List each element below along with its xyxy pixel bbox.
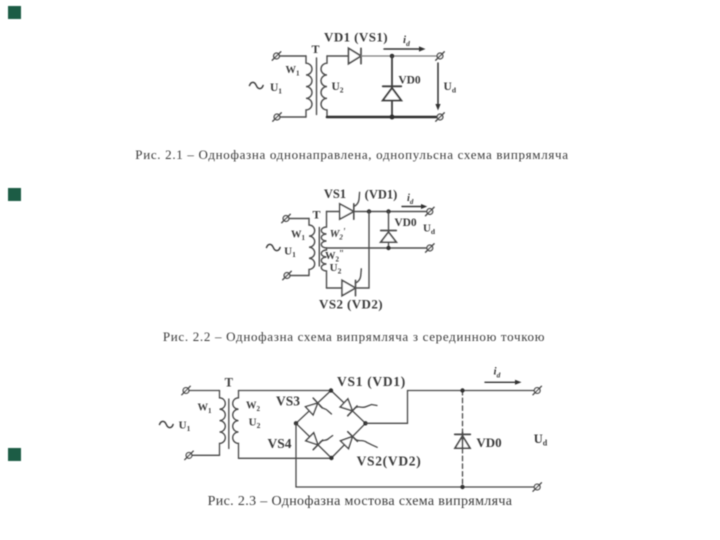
arrow current id C2 — [402, 204, 427, 209]
svg-text:id: id — [407, 193, 414, 206]
gate VS1 C2 — [354, 192, 360, 206]
svg-text:U1: U1 — [284, 246, 296, 260]
transformer T secondary winding U2 — [321, 56, 327, 117]
transformer secondary winding W2' — [321, 212, 326, 249]
wire left node down to output rail C3 — [296, 423, 534, 487]
junction bridge right node C3 — [363, 421, 367, 425]
wire secondary bottom to bridge C3 — [239, 457, 332, 459]
svg-text:VS1: VS1 — [324, 187, 346, 201]
bridge arm left-top C3 — [296, 391, 331, 424]
junction bridge bottom node C3 — [329, 456, 333, 460]
AC source symbol C1 — [250, 82, 264, 88]
svg-text:T: T — [312, 208, 320, 222]
transformer primary winding W1 C3 — [220, 391, 226, 456]
svg-text:VD0: VD0 — [398, 75, 421, 87]
junction VD0 bottom C3 — [460, 485, 464, 489]
svg-text:VD1 (VS1): VD1 (VS1) — [324, 30, 388, 45]
junction VD0 bottom C2 — [386, 246, 390, 250]
thyristor VS2 (VD2) — [342, 280, 356, 295]
transformer core C1 — [316, 58, 318, 115]
junction VS2 branch / top rail C2 — [367, 209, 371, 213]
wire right node to top output rail C3 — [366, 391, 535, 424]
wire secondary top to bridge C3 — [239, 390, 332, 392]
thyristor VS4 — [306, 433, 323, 450]
slide bullet square 1 — [8, 6, 21, 19]
svg-text:U1: U1 — [179, 420, 191, 434]
terminal input bottom-left C2 — [283, 271, 292, 280]
wire primary top C2 — [289, 218, 309, 220]
wire secondary top to diode C1 — [327, 55, 349, 57]
svg-text:W2: W2 — [246, 401, 261, 414]
thyristor VS2 bridge — [341, 432, 358, 449]
freewheeling diode VD0 C2 — [381, 231, 397, 243]
junction bottom rail / VD0 C1 — [390, 115, 395, 120]
freewheeling diode VD0 C1 — [383, 86, 401, 100]
junction bridge left node C3 — [294, 421, 298, 425]
bridge arm top-right C3 — [331, 391, 366, 424]
svg-text:VD0: VD0 — [476, 435, 501, 450]
wire secondary bottom to VS2 — [327, 287, 343, 289]
svg-text:T: T — [311, 42, 319, 56]
svg-text:id: id — [494, 366, 501, 380]
junction bridge top node C3 — [329, 388, 333, 392]
svg-text:Ud: Ud — [444, 81, 457, 95]
freewheeling diode VD0 C3 — [455, 433, 471, 449]
wire middle rail (center tap) C2 — [327, 247, 428, 249]
transformer core C3 — [228, 399, 230, 449]
junction VD0 top C3 — [460, 388, 464, 392]
wire VD0 branch C2 — [388, 212, 390, 249]
terminal input top-left C1 — [272, 52, 281, 61]
transformer core C2 — [318, 228, 320, 267]
wire primary top C3 — [189, 390, 220, 392]
AC source symbol C3 — [160, 421, 174, 427]
svg-text:Ud: Ud — [534, 432, 548, 448]
svg-text:id: id — [403, 34, 410, 48]
gate VS1 bridge — [355, 405, 377, 409]
wire primary bottom C1 — [280, 116, 306, 118]
svg-text:Рис. 2.1 – Однофазна однонапра: Рис. 2.1 – Однофазна однонаправлена, одн… — [135, 147, 568, 162]
wire top rail C2 — [354, 211, 427, 213]
svg-text:Рис. 2.2 – Однофазна схема вип: Рис. 2.2 – Однофазна схема випрямляча з … — [163, 329, 545, 344]
svg-text:VS1 (VD1): VS1 (VD1) — [337, 374, 406, 389]
svg-text:U2: U2 — [249, 417, 261, 431]
transformer secondary winding W2 C3 — [233, 391, 239, 459]
svg-text:U2: U2 — [331, 81, 343, 95]
svg-text:Ud: Ud — [423, 223, 436, 237]
wire VD0 dashed bottom C3 — [462, 449, 464, 488]
terminal output top-right C3 — [533, 386, 542, 395]
svg-text:VS3: VS3 — [276, 394, 300, 409]
svg-text:Рис. 2.3 – Однофазна мостова с: Рис. 2.3 – Однофазна мостова схема випря… — [208, 494, 513, 509]
gate VS3 — [320, 406, 332, 414]
transformer secondary winding W2'' — [321, 248, 326, 288]
transformer primary winding W1 C2 — [309, 219, 315, 276]
svg-text:(VD1): (VD1) — [365, 188, 398, 202]
junction top rail / VD0 C1 — [390, 54, 395, 59]
slide bullet square 3 — [8, 448, 21, 461]
svg-text:VS4: VS4 — [267, 436, 291, 451]
wire secondary top to VS1 — [327, 211, 340, 213]
terminal input top-left C2 — [282, 214, 291, 223]
svg-text:VS2 (VD2): VS2 (VD2) — [319, 297, 383, 312]
terminal output bottom-right C3 — [533, 483, 542, 492]
gate VS4 — [320, 436, 333, 443]
transformer T primary winding W1 — [306, 56, 312, 117]
terminal output top-right C2 — [426, 207, 435, 216]
arrow voltage Ud C1 — [435, 63, 440, 111]
thyristor VS1 bridge — [340, 399, 357, 416]
bridge arm bottom-right C3 — [331, 423, 365, 458]
gate VS2 bridge — [355, 439, 377, 447]
terminal input bottom-left C1 — [273, 113, 282, 122]
terminal input top-left C3 — [182, 386, 191, 395]
svg-text:W1: W1 — [286, 65, 301, 78]
wire top rail C1 — [361, 55, 437, 57]
svg-text:U2: U2 — [330, 262, 342, 276]
junction VD0 top C2 — [386, 209, 390, 213]
diode VD1 (VS1) — [349, 48, 362, 63]
AC source symbol C2 — [267, 244, 281, 250]
svg-text:VD0: VD0 — [394, 217, 417, 229]
wire bottom rail C1 — [327, 116, 437, 119]
gate VS2 C2 — [356, 269, 362, 283]
terminal output bottom-right C1 — [436, 113, 445, 122]
terminal output bottom-right C2 — [426, 244, 435, 253]
svg-text:W1: W1 — [291, 230, 306, 243]
slide bullet square 2 — [8, 188, 21, 201]
thyristor VS3 — [306, 398, 323, 415]
wire primary top C1 — [279, 55, 306, 57]
wire VS2 up to top rail C2 — [356, 212, 370, 289]
svg-text:VS2(VD2): VS2(VD2) — [357, 454, 422, 469]
wire VD0 dashed top C3 — [462, 391, 464, 433]
bridge arm left-bottom C3 — [296, 423, 331, 458]
wire primary bottom C3 — [192, 454, 220, 456]
svg-text:U1: U1 — [270, 82, 282, 96]
arrow current id C3 — [485, 380, 522, 385]
wire primary bottom C2 — [290, 275, 309, 277]
wire VD0 branch C1 — [391, 56, 393, 117]
svg-text:T: T — [225, 376, 234, 390]
terminal input bottom-left C3 — [185, 451, 194, 460]
thyristor VS1 (VD1) — [340, 204, 354, 219]
svg-text:W1: W1 — [198, 403, 213, 416]
svg-text:W2': W2' — [330, 227, 346, 242]
arrow current id C1 — [384, 46, 426, 51]
terminal output top-right C1 — [436, 52, 445, 61]
